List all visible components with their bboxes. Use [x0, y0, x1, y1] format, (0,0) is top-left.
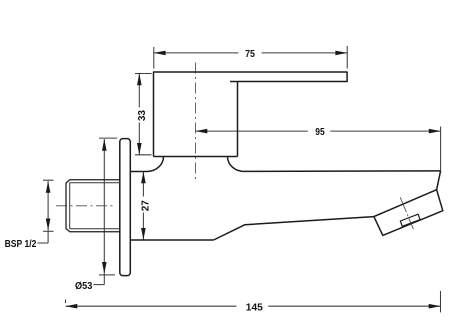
body base right flare arc [228, 157, 245, 172]
wire: 33 top extension tick [135, 73, 152, 75]
wire: 75 right extension line [346, 46, 348, 69]
node: 95 right arrowhead [429, 129, 441, 134]
wire: dimension 33 line [135, 74, 152, 155]
wire: dimension D53 line [94, 138, 118, 285]
node: 145 left arrowhead [66, 304, 78, 309]
node: D53 top arrowhead [102, 139, 107, 151]
wire: dimension BSP line [38, 180, 54, 243]
node: 95 left arrowhead [196, 129, 208, 134]
thread minor diameter lines [70, 183, 120, 229]
wire: body bottom edge [154, 156, 238, 158]
node: 27 bottom arrowhead [141, 228, 146, 240]
wire: spout top edge [244, 170, 441, 173]
node: 145 right arrowhead [429, 304, 441, 309]
svg-text:33: 33 [137, 110, 148, 122]
wire: thread chamfer end line [69, 183, 71, 229]
wire: 145 left extension stub [65, 300, 67, 304]
svg-text:75: 75 [245, 49, 255, 60]
node: D53 bottom arrowhead [102, 262, 107, 274]
wire: BSP leader [38, 242, 49, 244]
wire: dimension 95 line [196, 127, 441, 171]
wall flange [120, 139, 131, 276]
wire: dimension 75 line [154, 46, 347, 69]
wire: BSP top extension tick [43, 179, 54, 181]
node: 33 bottom arrowhead [137, 143, 142, 155]
node: BSP top arrowhead [46, 181, 51, 193]
wire: D53 top extension tick [99, 137, 117, 139]
wire: vertical centerline of valve body [195, 63, 197, 183]
svg-text:145: 145 [246, 303, 263, 314]
wire: spout bottom taper [214, 217, 374, 240]
node: 75 right arrowhead [335, 51, 347, 56]
wire: D53 bottom extension tick [99, 274, 115, 276]
wire: dimension 27 line [142, 172, 144, 240]
wire: body right edge [237, 82, 239, 157]
node: 33 top arrowhead [137, 74, 142, 86]
wire: spout end face [437, 171, 441, 190]
wire: 145 right extension line [440, 291, 442, 312]
svg-text:BSP 1/2: BSP 1/2 [5, 238, 37, 250]
svg-text:Ø53: Ø53 [75, 281, 93, 292]
node: 75 left arrowhead [154, 51, 166, 56]
wire: 33 bottom extension tick [135, 154, 152, 156]
wire: horizontal centerline of inlet shank [56, 205, 114, 207]
wire: D53 leader [94, 284, 105, 286]
body base left flare arc [147, 157, 164, 172]
node: BSP bottom arrowhead [46, 219, 51, 231]
wire: aerator centerline [400, 197, 413, 229]
threaded inlet BSP profile [66, 180, 120, 232]
node: 27 top arrowhead [141, 172, 146, 184]
wire: shank bottom edge [130, 239, 213, 241]
wire: shank top edge [130, 171, 147, 173]
aerator housing [374, 190, 443, 236]
faucet body block and handle lever top edge [66, 72, 443, 276]
svg-text:27: 27 [140, 200, 151, 212]
wire: BSP bottom extension tick [43, 230, 54, 232]
svg-text:95: 95 [315, 127, 325, 138]
wire: 75 left extension line [153, 47, 155, 69]
wire: 95 right extension line [440, 127, 442, 171]
wire: dimension 145 line [66, 291, 441, 312]
aerator outlet nozzle [400, 214, 420, 226]
